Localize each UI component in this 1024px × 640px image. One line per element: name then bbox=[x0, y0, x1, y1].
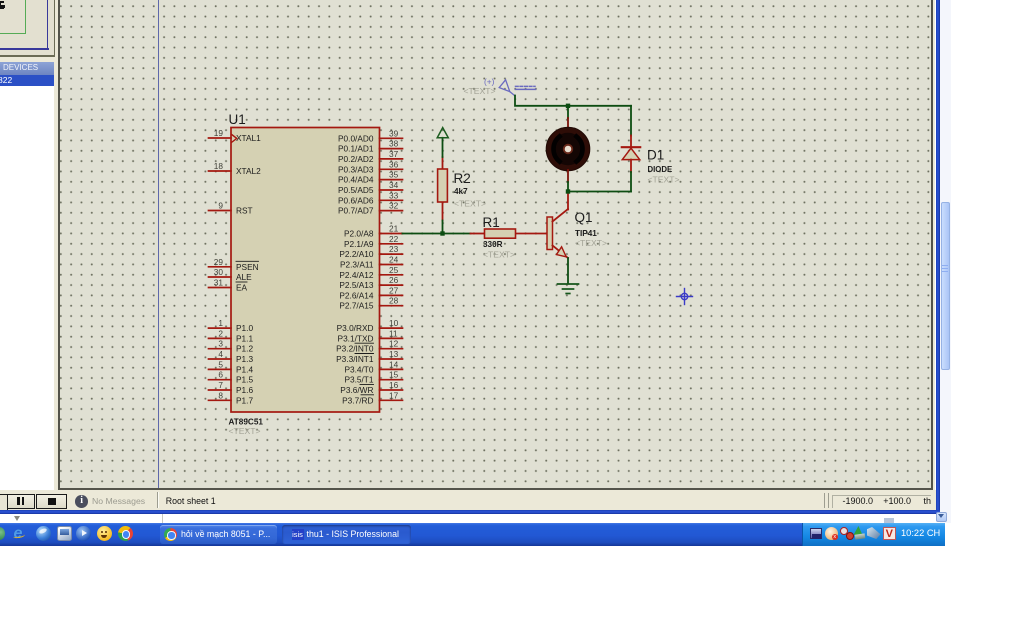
overview blue frame bbox=[47, 0, 49, 50]
svg-text:(+): (+) bbox=[484, 77, 495, 87]
svg-text:38: 38 bbox=[389, 139, 399, 149]
svg-text:12: 12 bbox=[389, 339, 399, 349]
svg-text:29: 29 bbox=[214, 257, 224, 267]
task button 1 bbox=[160, 525, 277, 544]
svg-text:16: 16 bbox=[389, 380, 399, 390]
junction at R2 bottom bbox=[440, 231, 444, 235]
overview panel bbox=[0, 0, 54, 55]
svg-text:P0.5/AD5: P0.5/AD5 bbox=[338, 185, 374, 195]
svg-text:<TEXT>: <TEXT> bbox=[483, 250, 515, 260]
tray icons bbox=[810, 528, 823, 540]
svg-text:XTAL2: XTAL2 bbox=[236, 166, 261, 176]
svg-text:P2.2/A10: P2.2/A10 bbox=[339, 249, 374, 259]
svg-text:P2.3/A11: P2.3/A11 bbox=[340, 260, 374, 270]
canvas dark edges bbox=[58, 0, 60, 490]
overbars on INT0 INT1 WR RD bbox=[355, 343, 374, 395]
pin 3 P1.2 bbox=[209, 348, 232, 350]
svg-text:23: 23 bbox=[389, 244, 399, 254]
emitter bbox=[553, 246, 569, 259]
svg-text:4k7: 4k7 bbox=[454, 187, 468, 196]
svg-text:P2.5/A13: P2.5/A13 bbox=[339, 280, 374, 290]
pin 22 bbox=[380, 243, 403, 245]
small grey triangle on white strip bbox=[14, 516, 20, 521]
svg-text:P1.3: P1.3 bbox=[236, 354, 253, 364]
pin 18 XTAL2 bbox=[209, 170, 232, 172]
pin 31 EA bbox=[209, 287, 232, 289]
svg-text:36: 36 bbox=[389, 159, 399, 169]
svg-text:P1.4: P1.4 bbox=[236, 364, 253, 374]
svg-text:TIP41: TIP41 bbox=[575, 229, 597, 238]
pin 5 P1.4 bbox=[209, 368, 232, 370]
sheet border line bbox=[158, 0, 160, 488]
pin 30 ALE bbox=[209, 276, 232, 278]
U1 left pin names bbox=[236, 133, 261, 405]
svg-text:<TEXT>: <TEXT> bbox=[464, 86, 496, 96]
svg-text:P3.1/TXD: P3.1/TXD bbox=[338, 333, 374, 343]
play button (cut) bbox=[0, 494, 8, 511]
scrollbar thumb bbox=[941, 202, 950, 371]
editor canvas with dot grid bbox=[60, 0, 932, 488]
svg-text:6: 6 bbox=[218, 370, 223, 380]
pin 19 XTAL1 bbox=[209, 137, 232, 139]
bottom toolbar bbox=[0, 490, 936, 510]
svg-text:15: 15 bbox=[389, 370, 399, 380]
wire speaker bottom to junction bbox=[567, 170, 569, 182]
pin 11 bbox=[380, 337, 403, 339]
svg-text:Q1: Q1 bbox=[575, 210, 593, 225]
resistor R1 bbox=[471, 215, 548, 260]
svg-text:P3.3/INT1: P3.3/INT1 bbox=[336, 354, 374, 364]
pin 21 bbox=[380, 233, 403, 235]
pin 8 P1.7 bbox=[209, 399, 232, 401]
beige strip right of canvas bbox=[933, 0, 935, 490]
overview outer border bbox=[54, 0, 56, 57]
junction above collector bbox=[566, 189, 570, 193]
svg-text:RST: RST bbox=[236, 206, 253, 216]
window borders (XP blue) bbox=[936, 0, 940, 514]
svg-text:34: 34 bbox=[389, 180, 399, 190]
resistor R2 bbox=[438, 157, 486, 234]
svg-text:P0.3/AD3: P0.3/AD3 bbox=[338, 164, 374, 174]
pause button bbox=[7, 494, 35, 509]
svg-text:5: 5 bbox=[218, 359, 223, 369]
svg-text:PSEN: PSEN bbox=[236, 262, 259, 272]
svg-text:18: 18 bbox=[214, 161, 224, 171]
svg-text:R2: R2 bbox=[454, 171, 471, 186]
selected device row bbox=[0, 75, 54, 86]
pin 7 P1.6 bbox=[209, 389, 232, 391]
svg-text:2: 2 bbox=[218, 328, 223, 338]
junction at speaker top bbox=[566, 104, 570, 108]
pin 35 bbox=[380, 179, 403, 181]
wire net P2.0 to R1 bbox=[403, 233, 471, 235]
system tray bbox=[802, 523, 945, 546]
svg-text:26: 26 bbox=[389, 275, 399, 285]
svg-text:P0.2/AD2: P0.2/AD2 bbox=[338, 154, 374, 164]
pin 2 P1.1 bbox=[209, 337, 232, 339]
pin 17 bbox=[380, 399, 403, 401]
svg-text:21: 21 bbox=[389, 224, 399, 234]
svg-text:27: 27 bbox=[389, 285, 399, 295]
speaker / sounder bbox=[546, 127, 590, 171]
svg-text:P2.4/A12: P2.4/A12 bbox=[339, 270, 374, 280]
divider bbox=[157, 492, 158, 508]
svg-text:14: 14 bbox=[389, 359, 399, 369]
svg-text:P0.0/AD0: P0.0/AD0 bbox=[338, 133, 374, 143]
svg-text:P3.4/T0: P3.4/T0 bbox=[344, 364, 373, 374]
pin 33 bbox=[380, 199, 403, 201]
svg-text:U1: U1 bbox=[229, 112, 246, 127]
task button 2 (active) bbox=[282, 525, 411, 544]
pin 36 bbox=[380, 168, 403, 170]
svg-text:25: 25 bbox=[389, 265, 399, 275]
svg-text:EA: EA bbox=[236, 283, 248, 293]
svg-text:P1.5: P1.5 bbox=[236, 375, 253, 385]
svg-text:P3.7/RD: P3.7/RD bbox=[342, 395, 373, 405]
U1 left pin numbers bbox=[214, 128, 224, 400]
svg-text:<TEXT>: <TEXT> bbox=[575, 238, 607, 248]
pin 1 P1.0 bbox=[209, 327, 232, 329]
U1 left pins bbox=[209, 138, 232, 400]
pin 12 bbox=[380, 348, 403, 350]
pin 15 bbox=[380, 379, 403, 381]
svg-text:R1: R1 bbox=[483, 215, 500, 230]
svg-text:30: 30 bbox=[214, 267, 224, 277]
svg-text:P2.7/A15: P2.7/A15 bbox=[339, 301, 374, 311]
svg-text:39: 39 bbox=[389, 128, 399, 138]
wire from (+) terminal across top bbox=[515, 96, 631, 106]
svg-text:P1.6: P1.6 bbox=[236, 385, 253, 395]
svg-text:11: 11 bbox=[389, 328, 398, 338]
pin 38 bbox=[380, 148, 403, 150]
pin 23 bbox=[380, 253, 403, 255]
info icon bbox=[75, 495, 88, 508]
pin 27 bbox=[380, 294, 403, 296]
power terminal (+) top bbox=[464, 77, 536, 97]
svg-text:4: 4 bbox=[218, 349, 223, 359]
svg-text:P3.2/INT0: P3.2/INT0 bbox=[336, 344, 374, 354]
svg-text:17: 17 bbox=[389, 390, 399, 400]
svg-text:P3.6/WR: P3.6/WR bbox=[340, 385, 373, 395]
wire junction to D1 bottom bbox=[568, 191, 631, 193]
svg-text:P3.5/T1: P3.5/T1 bbox=[344, 375, 373, 385]
svg-text:22: 22 bbox=[389, 234, 399, 244]
pin 28 bbox=[380, 305, 403, 307]
diode D1 bbox=[622, 106, 680, 192]
pin 29 PSEN bbox=[209, 266, 232, 268]
svg-text:P1.0: P1.0 bbox=[236, 323, 253, 333]
overbars on PSEN / EA bbox=[236, 261, 259, 282]
microcontroller U1 body bbox=[229, 112, 380, 436]
svg-text:3: 3 bbox=[218, 339, 223, 349]
pin 14 bbox=[380, 368, 403, 370]
cursor crosshair bbox=[677, 289, 693, 305]
svg-text:P2.1/A9: P2.1/A9 bbox=[344, 239, 374, 249]
scrollbar bottom arrow button bbox=[936, 512, 947, 522]
svg-text:24: 24 bbox=[389, 255, 399, 265]
svg-text:P0.1/AD1: P0.1/AD1 bbox=[338, 144, 374, 154]
device list white area bbox=[0, 86, 54, 490]
svg-text:P1.1: P1.1 bbox=[236, 333, 253, 343]
svg-text:P0.4/AD4: P0.4/AD4 bbox=[338, 175, 374, 185]
pin 6 P1.5 bbox=[209, 379, 232, 381]
svg-text:10: 10 bbox=[389, 318, 399, 328]
overview green frame bbox=[25, 0, 27, 34]
pin 32 bbox=[380, 210, 403, 212]
pin 37 bbox=[380, 158, 403, 160]
svg-text:DIODE: DIODE bbox=[648, 165, 673, 174]
svg-text:37: 37 bbox=[389, 149, 399, 159]
svg-text:33: 33 bbox=[389, 190, 399, 200]
svg-text:P0.6/AD6: P0.6/AD6 bbox=[338, 195, 374, 205]
right status fields bbox=[824, 493, 825, 508]
svg-text:P3.0/RXD: P3.0/RXD bbox=[337, 323, 374, 333]
pin 13 bbox=[380, 358, 403, 360]
svg-text:<TEXT>: <TEXT> bbox=[454, 199, 486, 209]
U1 right pin numbers bbox=[389, 128, 399, 400]
U1 right pins bbox=[380, 138, 403, 400]
power terminal arrow above R2 bbox=[437, 128, 448, 157]
pin 24 bbox=[380, 264, 403, 266]
svg-text:19: 19 bbox=[214, 128, 224, 138]
svg-text:32: 32 bbox=[389, 201, 399, 211]
svg-text:7: 7 bbox=[218, 380, 223, 390]
pin 25 bbox=[380, 274, 403, 276]
DEVICES header bbox=[0, 62, 54, 75]
XTAL1 clock mark bbox=[232, 135, 237, 143]
pin 26 bbox=[380, 284, 403, 286]
svg-text:31: 31 bbox=[214, 278, 224, 288]
ground bbox=[558, 284, 579, 294]
svg-text:9: 9 bbox=[218, 201, 223, 211]
wire top junction to speaker bbox=[567, 106, 569, 118]
svg-text:XTAL1: XTAL1 bbox=[236, 133, 261, 143]
svg-text:P2.6/A14: P2.6/A14 bbox=[339, 290, 374, 300]
fragment of window behind, above tray bbox=[884, 518, 894, 523]
svg-text:P2.0/A8: P2.0/A8 bbox=[344, 229, 374, 239]
svg-text:28: 28 bbox=[389, 296, 399, 306]
pin 4 P1.3 bbox=[209, 358, 232, 360]
svg-text:35: 35 bbox=[389, 170, 399, 180]
svg-text:P1.2: P1.2 bbox=[236, 344, 253, 354]
svg-text:<TEXT>: <TEXT> bbox=[229, 426, 261, 436]
svg-text:D1: D1 bbox=[647, 148, 664, 163]
top-left icon fragment bbox=[0, 1, 4, 9]
U1 right pin names bbox=[336, 133, 374, 405]
svg-text:330R: 330R bbox=[483, 240, 503, 249]
sidebar background bbox=[0, 0, 58, 490]
svg-text:ALE: ALE bbox=[236, 272, 252, 282]
svg-text:<TEXT>: <TEXT> bbox=[648, 175, 680, 185]
pin 9 RST bbox=[209, 210, 232, 212]
pin 34 bbox=[380, 189, 403, 191]
svg-text:13: 13 bbox=[389, 349, 399, 359]
svg-text:P0.7/AD7: P0.7/AD7 bbox=[338, 206, 374, 216]
transistor Q1 TIP41 bbox=[547, 193, 607, 259]
quick launch icons bbox=[0, 527, 5, 540]
stop button bbox=[36, 494, 67, 509]
pin 16 bbox=[380, 389, 403, 391]
pin 10 bbox=[380, 327, 403, 329]
pin 39 bbox=[380, 137, 403, 139]
svg-text:1: 1 bbox=[218, 318, 223, 328]
wire emitter to ground bbox=[567, 258, 569, 284]
svg-text:8: 8 bbox=[218, 390, 223, 400]
collector bbox=[553, 209, 569, 222]
svg-text:P1.7: P1.7 bbox=[236, 395, 253, 405]
